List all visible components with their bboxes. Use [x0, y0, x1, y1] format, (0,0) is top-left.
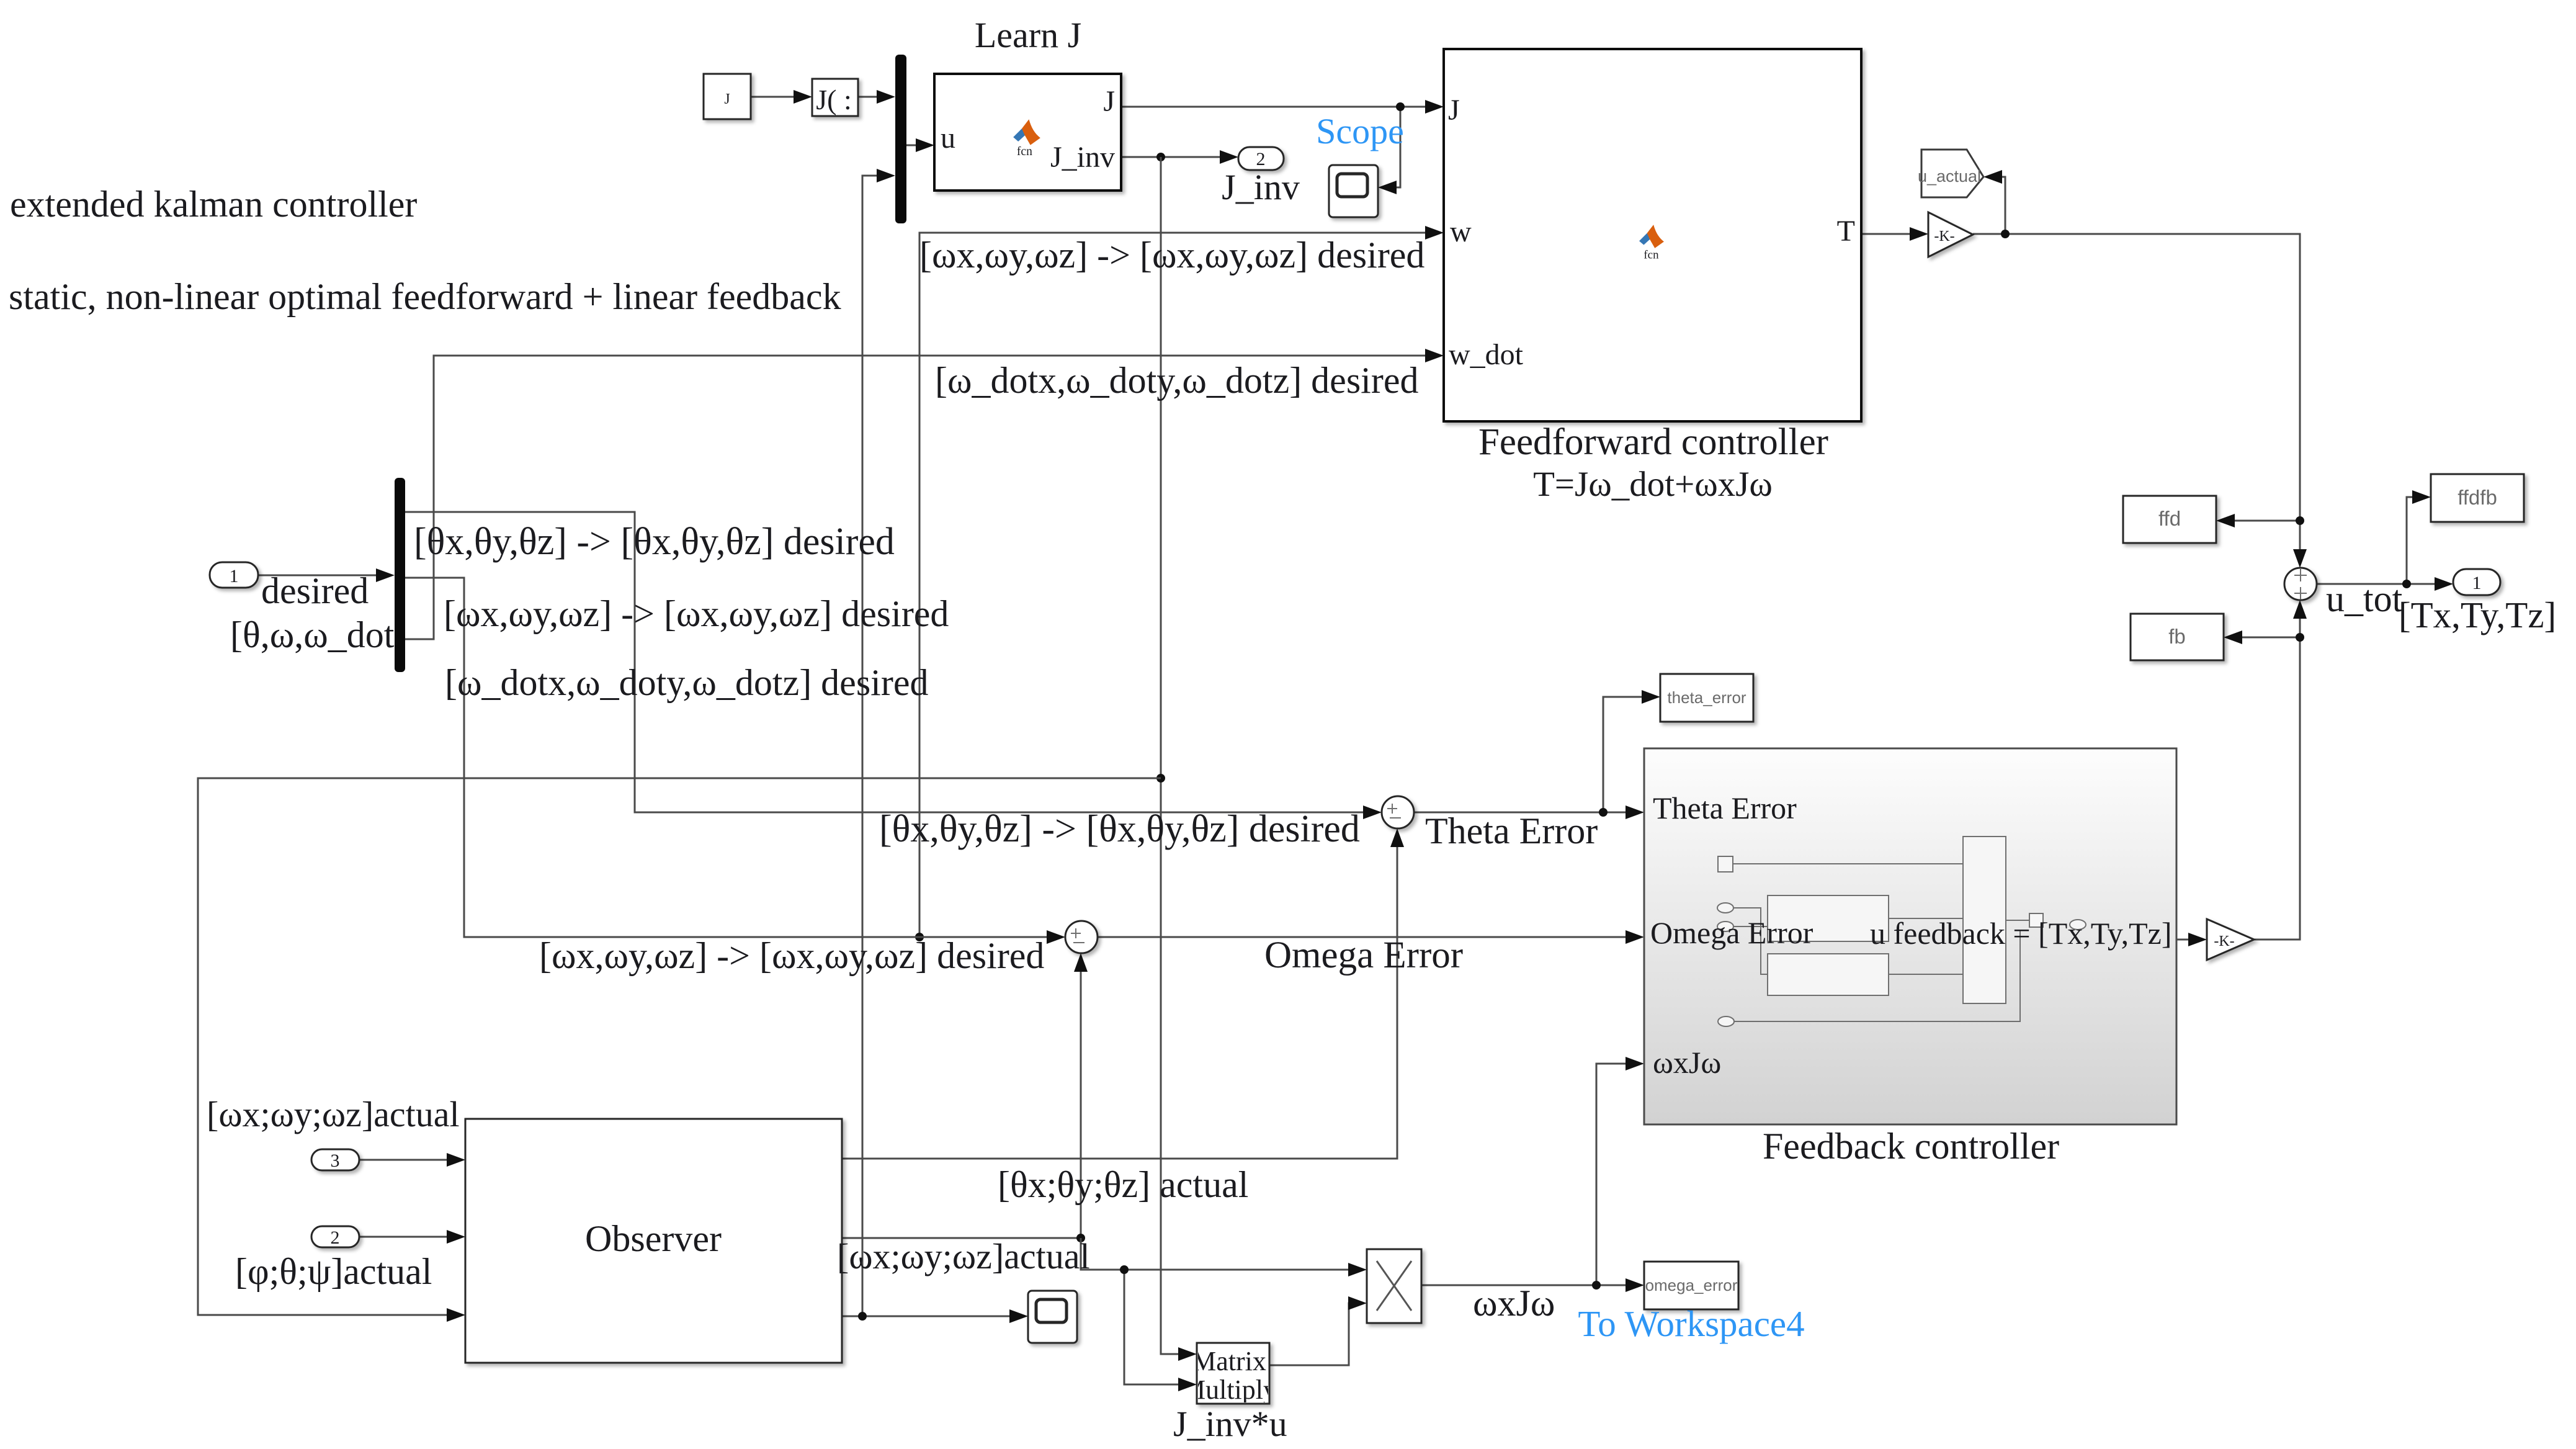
svg-text:[ω_dotx,ω_doty,ω_dotz] desired: [ω_dotx,ω_doty,ω_dotz] desired [935, 360, 1418, 401]
wire branch up to theta_error workspace block [1603, 697, 1645, 812]
wire observer output1 theta actual to theta sum bottom [843, 843, 1397, 1159]
block theta_error workspace [1660, 674, 1753, 722]
wire mux to Learn J u input [906, 145, 919, 146]
wire J_inv long drop to Matrix Multiply input1 [1161, 157, 1182, 1354]
svg-text:Feedforward controller: Feedforward controller [1478, 421, 1828, 463]
svg-text:[ωx,ωy,ωz] -> [ωx,ωy,ωz] desir: [ωx,ωy,ωz] -> [ωx,ωy,ωz] desired [444, 593, 949, 634]
svg-text:J_inv*u: J_inv*u [1173, 1404, 1287, 1444]
MATLAB function block Learn J [934, 74, 1121, 191]
wire Feedback controller output to gain2 [2176, 939, 2192, 941]
sum theta error [1382, 796, 1414, 828]
gain2 -K- [2207, 919, 2254, 960]
inport 1 desired [210, 562, 258, 588]
svg-text:w_dot: w_dot [1449, 338, 1524, 371]
outport 1 [2453, 569, 2500, 595]
svg-text:-K-: -K- [1934, 228, 1954, 244]
block ffd [2123, 496, 2216, 543]
wire inport3 to observer [359, 1159, 450, 1161]
block Matrix Multiply [1181, 1343, 1277, 1405]
feedback inner wires rect outputs [1889, 918, 1963, 974]
junction omega actual [1076, 1234, 1085, 1242]
junction matrix multiply branch [1120, 1265, 1129, 1274]
MATLAB function block Feedforward controller [1444, 49, 1861, 421]
wire J_inv output to outport 2 [1121, 156, 1223, 158]
svg-text:Feedback controller: Feedback controller [1763, 1126, 2059, 1167]
svg-text:omega_error: omega_error [1645, 1276, 1738, 1294]
wire branch into fb block [2238, 637, 2300, 639]
constant block J [704, 74, 751, 119]
wire theta desired from demux to theta sum [405, 512, 1367, 812]
wire branch from J line down into Scope [1393, 107, 1400, 187]
svg-text:w: w [1450, 215, 1472, 248]
svg-text:u_actual: u_actual [1918, 167, 1981, 186]
junction ffdfb branch [2402, 580, 2411, 588]
sum u_tot [2284, 568, 2317, 600]
junction fb branch [2296, 633, 2304, 642]
feedback inner wire oval3 path [1734, 931, 2020, 1021]
demux bar [395, 478, 405, 672]
svg-text:u feedback = [Tx,Ty,Tz]: u feedback = [Tx,Ty,Tz] [1870, 916, 2172, 951]
svg-text:[θ,ω,ω_dot: [θ,ω,ω_dot [230, 614, 395, 655]
svg-text:Scope: Scope [1316, 111, 1404, 151]
wire feedback gain up to sum bottom [2254, 615, 2300, 940]
svg-text:1: 1 [230, 566, 239, 586]
wire omega desired from demux to omega sum [405, 578, 1050, 937]
junction on J_inv line [1156, 153, 1165, 161]
cross product block [1367, 1249, 1421, 1323]
svg-text:u_tot: u_tot [2326, 578, 2403, 619]
svg-text:fcn: fcn [1644, 249, 1659, 262]
svg-text:2: 2 [331, 1227, 340, 1248]
outport 2 J_inv [1238, 147, 1284, 170]
feedback inner oval4 [2070, 920, 2086, 930]
svg-text:[φ;θ;ψ]actual: [φ;θ;ψ]actual [235, 1251, 432, 1292]
wire branch into ffd block [2231, 520, 2300, 522]
svg-text:J_inv: J_inv [1050, 141, 1115, 174]
scope block Scope1 [1028, 1291, 1077, 1343]
svg-text:[θx,θy,θz] -> [θx,θy,θz] desir: [θx,θy,θz] -> [θx,θy,θz] desired [414, 521, 895, 563]
feedback inner tall rect [1963, 837, 2006, 1003]
svg-text:fcn: fcn [1017, 145, 1032, 158]
goto tag u_actual [1918, 150, 1983, 197]
wire inport2 to observer [359, 1236, 450, 1238]
feedback inner small square2 [2029, 913, 2043, 927]
wire omega actual up to omega sum bottom [1080, 968, 1082, 1238]
svg-text:Omega Error: Omega Error [1650, 915, 1813, 950]
wire omega sum output to Feedback controller Omega Error [1098, 936, 1629, 938]
svg-text:Theta Error: Theta Error [1425, 810, 1598, 851]
svg-text:J_inv: J_inv [1222, 167, 1300, 207]
feedback inner oval2 [1717, 922, 1733, 931]
svg-text:3: 3 [331, 1151, 340, 1171]
wire J constant to reshape [751, 96, 797, 98]
junction wxJw branch [1592, 1281, 1601, 1290]
svg-text:desired: desired [261, 570, 369, 611]
wire branch up to u_actual goto tag [1998, 177, 2005, 234]
wire sum output to outport [2317, 583, 2438, 585]
wire cross product output to omega_error workspace [1421, 1285, 1629, 1286]
junction w branch on omega desired line [915, 933, 924, 941]
feedback inner preview square [1718, 856, 1733, 872]
block fb [2131, 614, 2224, 660]
svg-text:Omega Error: Omega Error [1264, 935, 1463, 976]
wire w_dot desired from demux up and right to Feedforward w_dot input [405, 356, 1429, 639]
svg-text:[ωx;ωy;ωz]actual: [ωx;ωy;ωz]actual [207, 1094, 460, 1134]
svg-text:fb: fb [2168, 625, 2186, 648]
feedback inner oval3 [1718, 1016, 1734, 1026]
svg-text:[θx;θy;θz] actual: [θx;θy;θz] actual [998, 1164, 1248, 1205]
wire branch up to Feedback controller wxJw input [1596, 1064, 1629, 1285]
junction u_actual branch [2001, 230, 2010, 238]
svg-text:1: 1 [2472, 573, 2482, 593]
junction theta_error branch [1599, 808, 1608, 817]
svg-text:T=Jω_dot+ωxJω: T=Jω_dot+ωxJω [1533, 465, 1773, 504]
wire left loop J_inv to Observer input3 [198, 778, 1161, 1315]
svg-text:ffd: ffd [2158, 507, 2181, 530]
svg-text:u: u [941, 122, 955, 155]
subsystem Observer [465, 1119, 842, 1363]
feedback inner wires to rects [1733, 908, 1768, 974]
svg-text:[ωx,ωy,ωz] -> [ωx,ωy,ωz] desir: [ωx,ωy,ωz] -> [ωx,ωy,ωz] desired [539, 935, 1044, 976]
wire reshape to mux [858, 96, 880, 98]
sum omega error [1065, 921, 1098, 953]
svg-text:J: J [724, 91, 730, 107]
block omega_error workspace [1644, 1262, 1738, 1309]
feedback inner wire tall rect to small square [2006, 920, 2029, 921]
subsystem Feedback controller [1644, 748, 2176, 1124]
svg-text:Learn J: Learn J [975, 15, 1081, 55]
svg-text:Observer: Observer [585, 1218, 722, 1259]
svg-text:theta_error: theta_error [1667, 688, 1746, 707]
wire gain output right and down to sum top [1973, 234, 2300, 553]
svg-text:[ωx,ωy,ωz] -> [ωx,ωy,ωz] desir: [ωx,ωy,ωz] -> [ωx,ωy,ωz] desired [919, 235, 1424, 276]
junction J_inv drop and left loop [1156, 774, 1165, 783]
svg-text:J( :: J( : [816, 84, 852, 115]
gain -K- [1928, 212, 1973, 257]
svg-text:ωxJω: ωxJω [1653, 1045, 1721, 1080]
inport 3 [311, 1149, 359, 1171]
svg-text:ffdfb: ffdfb [2457, 486, 2497, 509]
svg-text:[Tx,Ty,Tz]: [Tx,Ty,Tz] [2399, 594, 2556, 635]
matlab logo of Learn J [1013, 119, 1040, 158]
svg-text:[ω_dotx,ω_doty,ω_dotz] desired: [ω_dotx,ω_doty,ω_dotz] desired [445, 662, 928, 703]
svg-text:Theta Error: Theta Error [1653, 791, 1797, 825]
feedback inner wire from square [1733, 863, 1963, 864]
wire branch up to ffdfb block [2407, 497, 2416, 584]
svg-text:T: T [1837, 215, 1855, 248]
svg-text:J: J [1448, 94, 1460, 127]
wire Matrix Multiply output to cross product input2 [1269, 1303, 1352, 1365]
wire observer output2 omega actual right [843, 1237, 1081, 1239]
feedback inner rect2 [1768, 954, 1889, 995]
svg-text:To Workspace4: To Workspace4 [1578, 1303, 1804, 1344]
junction u line on output3 [858, 1312, 867, 1321]
svg-text:J: J [1103, 85, 1115, 118]
wire branch down to Matrix Multiply input2 [1124, 1270, 1182, 1384]
svg-text:Matrix: Matrix [1192, 1346, 1266, 1376]
wire u from observer output3 up to mux [862, 176, 880, 1316]
scope block Scope [1329, 165, 1378, 217]
svg-text:ωxJω: ωxJω [1473, 1283, 1555, 1324]
reshape block J(:) [812, 79, 858, 116]
junction on J line [1396, 102, 1405, 111]
wire J output of Learn J to Feedforward J input [1121, 106, 1429, 108]
wire theta sum output to Feedback controller Theta Error [1414, 812, 1629, 814]
wire inport1 to demux [258, 575, 380, 576]
feedback inner rect1 [1768, 895, 1889, 941]
svg-text:extended kalman controller: extended kalman controller [10, 184, 417, 225]
wire T output to gain [1861, 233, 1913, 235]
svg-text:[ωx;ωy;ωz]actual: [ωx;ωy;ωz]actual [837, 1236, 1090, 1276]
svg-text:static, non-linear optimal fee: static, non-linear optimal feedforward +… [9, 276, 841, 317]
wire observer output3 to scope2 [843, 1316, 1013, 1317]
matlab logo of Feedforward controller [1639, 225, 1664, 262]
wire w desired up to Feedforward w input [919, 233, 1429, 937]
junction ffd branch [2296, 516, 2304, 525]
wire omega actual down and right to cross product input1 [1081, 1238, 1352, 1270]
svg-text:-K-: -K- [2214, 933, 2234, 949]
svg-text:[θx,θy,θz] -> [θx,θy,θz] desir: [θx,θy,θz] -> [θx,θy,θz] desired [879, 808, 1360, 850]
feedback inner oval1 [1717, 903, 1733, 913]
mux Mux1 [895, 55, 906, 223]
inport 2 [311, 1226, 359, 1248]
block ffdfb [2431, 474, 2524, 522]
